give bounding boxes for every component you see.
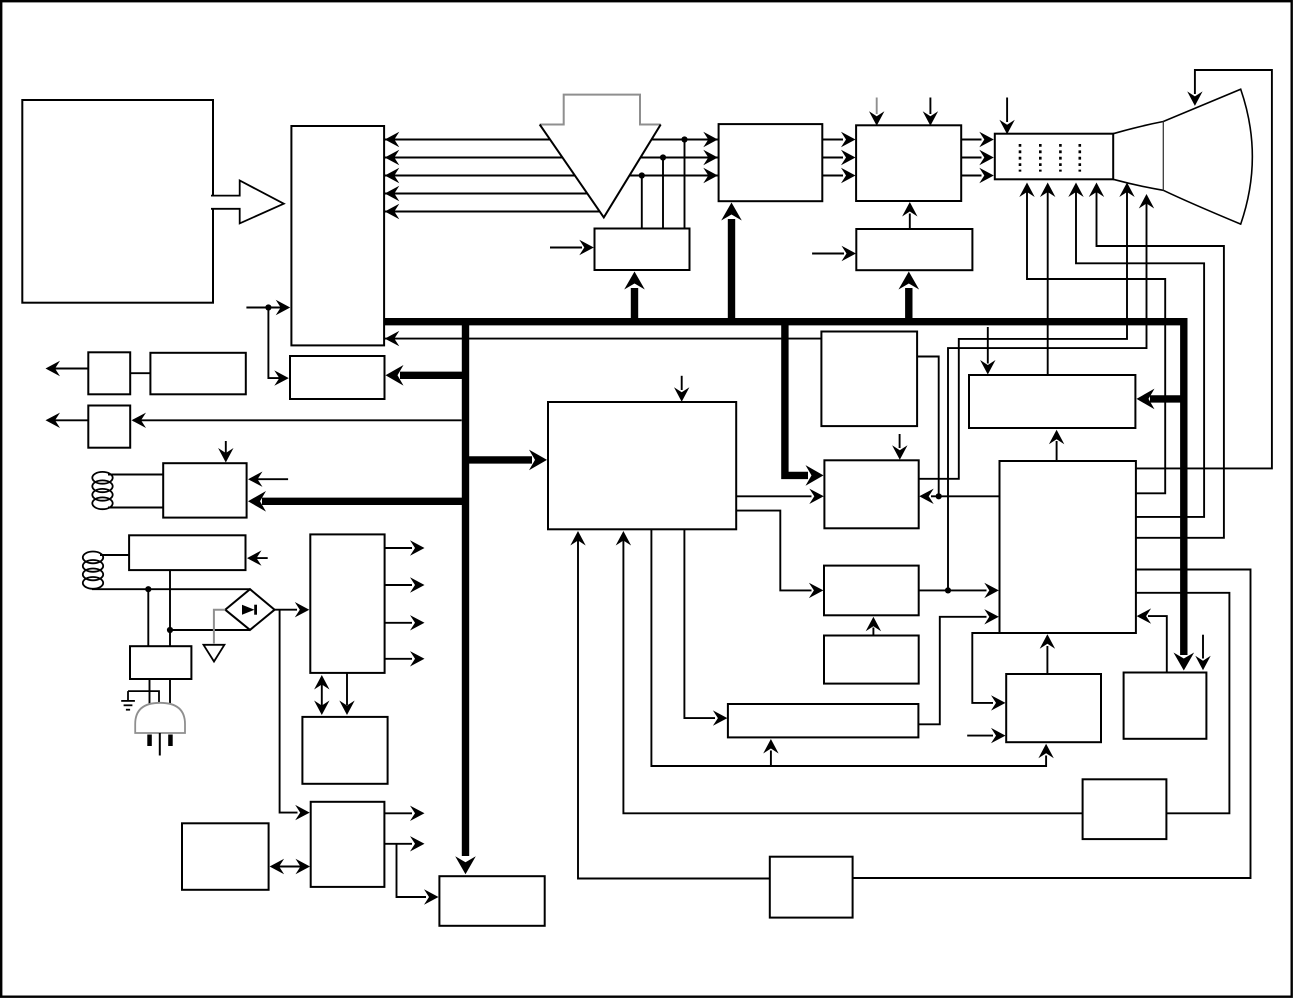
wire junction down into switch box — [147, 589, 149, 646]
wire power supply output 3 — [385, 622, 412, 624]
wire chroma2 output to jungle — [919, 589, 987, 591]
block arrow big hollow down arrow — [540, 95, 661, 218]
block box under B — [856, 229, 972, 270]
wire micom bottom 2 from delay box — [623, 534, 1082, 814]
node sync tap 3 — [639, 172, 645, 178]
wire down arrow into micom top — [681, 376, 683, 390]
CRT screen inner line — [1162, 122, 1164, 191]
bridge rectifier diamond — [225, 589, 274, 630]
block video amp A — [719, 124, 823, 201]
wire micom bottom 1 from deflection box — [578, 534, 770, 879]
wire sync tap 2 down — [662, 158, 664, 229]
node junction tuner input — [265, 304, 271, 310]
wire up arrow box18 to box B — [909, 214, 911, 230]
AC plug blades — [147, 735, 152, 747]
bus branch left into video output box — [1150, 395, 1184, 402]
wire standby branch to reset box — [397, 844, 427, 897]
power bus left vertical branch — [462, 322, 469, 856]
wire micom to chroma1 — [736, 495, 811, 497]
wire power supply output 2 — [385, 584, 412, 586]
wire jungle to delay box — [1136, 593, 1230, 814]
wire output from small box S1 to speaker — [48, 368, 88, 370]
wire free input into box4 top — [987, 327, 989, 364]
block standby supply box — [311, 802, 385, 887]
ground earth symbol — [127, 691, 129, 701]
wire free input into sync box — [550, 247, 582, 249]
wire stub with junction into tuner left edge — [246, 307, 288, 309]
wire bidirectional eeprom-standby — [272, 866, 308, 868]
block degauss box — [129, 535, 245, 570]
block eeprom box — [182, 823, 269, 890]
wire free down arrow into vertical out box — [1202, 635, 1204, 659]
bus arrow into sync box — [631, 288, 638, 318]
power bus B+ main horizontal and right vertical — [384, 322, 1184, 655]
block sync separator box — [595, 229, 690, 271]
wire box822 output to junction — [917, 357, 939, 497]
wire AFT line into tuner right edge — [385, 338, 822, 340]
wire S1 to audio amp box — [130, 372, 150, 374]
wire bridge output down to standby supply — [280, 610, 298, 813]
block tuner tall box — [291, 126, 384, 345]
block chroma stage 2 — [824, 566, 919, 616]
wire micom to chroma2 — [736, 511, 811, 591]
wire down arrow into CRT neck — [1006, 98, 1008, 123]
wire junction into chroma1 right edge — [931, 495, 939, 497]
node chroma2 output junction — [945, 587, 951, 593]
wire switch box to plug right — [169, 679, 171, 705]
wire AC line to bridge top vertex — [92, 588, 250, 590]
wire power supply output 4 — [385, 658, 412, 660]
bus arrow into video amp box A — [728, 219, 735, 318]
diode D1 inside bridge — [242, 605, 255, 615]
wire bidirectional feedback psu-regulator — [321, 678, 323, 713]
wire input into degauss box right edge — [249, 557, 268, 559]
wire sync tap 3 down — [641, 176, 643, 229]
bus arrow into box under B — [905, 288, 912, 318]
wire micom bottom 3 to control box — [651, 529, 1046, 766]
block jungle deflection IC — [1000, 461, 1136, 633]
bus branch down to chroma box — [785, 322, 808, 476]
wire free input into box18 — [812, 253, 844, 255]
bus branch left into flyback box — [262, 498, 466, 505]
wire gray down arrow into box B — [876, 98, 878, 115]
wire switch box to plug left — [149, 679, 151, 705]
block horizontal drive long box — [728, 704, 919, 737]
wire vertical out box into jungle — [1148, 616, 1167, 672]
wire chroma3 up into chroma2 — [872, 628, 874, 636]
block vertical output box — [1124, 673, 1207, 739]
wire box B to CRT neck y139.5 — [961, 139, 981, 141]
block IF box under tuner — [290, 356, 385, 399]
block chroma stage 1 — [824, 460, 918, 528]
block flyback supply box — [163, 463, 246, 517]
wire micom bottom 4 to h-drive box — [684, 529, 715, 718]
wire bridge output into power supply box — [275, 609, 297, 611]
block reset box — [439, 876, 544, 926]
wire degauss box bottom to AC lower line — [169, 570, 171, 646]
block audio amp — [150, 353, 245, 395]
wire output from small box S2 — [48, 419, 88, 421]
wire IF line 2 — [385, 157, 718, 159]
wire branch up into h-drive box — [770, 751, 772, 767]
block main power supply — [310, 534, 384, 673]
wire CRT pin1 drive — [1027, 185, 1165, 494]
inductor coil flyback secondary — [92, 472, 112, 484]
wire CRT pin3 drive — [1076, 185, 1204, 517]
wire box A to box B y157.5 — [822, 157, 843, 159]
wire coil1 bottom lead — [108, 507, 163, 509]
wire box A to box B y175.5 — [822, 175, 843, 177]
wire jungle to deflection feedback — [853, 570, 1251, 879]
block deflection box bottom center — [770, 857, 853, 918]
wire IF line 3 — [385, 175, 718, 177]
wire EHT lead from flyback to CRT anode — [1136, 70, 1272, 468]
wire IF line 5 — [385, 211, 606, 213]
block CRT neck box — [995, 134, 1113, 180]
wire input into flyback right edge — [250, 478, 288, 480]
wire box822 down into chroma1 — [899, 434, 901, 448]
wire lower AC line to bridge bottom vertex — [170, 629, 250, 631]
wire IF line 4 — [385, 193, 617, 195]
block audio output S1 — [88, 352, 130, 394]
block chroma stage 3 — [824, 636, 919, 684]
block micom system control — [548, 402, 736, 529]
inductor coil degauss — [83, 552, 103, 564]
node AC junction lower — [167, 627, 173, 633]
wire long line from bus to S2 — [133, 419, 462, 421]
node AC junction left — [145, 586, 151, 592]
bus branch left into IF block — [400, 372, 466, 379]
wire gray chassis lead from bridge — [214, 610, 225, 644]
wire jungle top up into video output box — [1056, 441, 1058, 461]
wire CRT pin6 drive — [948, 196, 1147, 590]
AC plug cord stub — [159, 733, 161, 756]
wire CRT pin5 drive — [919, 185, 1127, 479]
wire ground to plug — [128, 691, 159, 702]
AC plug body — [135, 703, 185, 733]
wire control box up into jungle — [1046, 646, 1048, 674]
wire coil1 top lead — [108, 474, 163, 476]
block relay switch box — [130, 646, 191, 679]
wire power supply output 1 — [385, 547, 412, 549]
bus branch right into micom box — [469, 456, 532, 463]
block arrow from CPU to tuner — [211, 181, 284, 224]
wire standby output 2 with branch — [384, 843, 412, 845]
wire junction to jungle left edge — [939, 495, 1000, 497]
wire IF line 1 — [385, 139, 718, 141]
wire sync tap 1 down — [684, 140, 686, 229]
wire psu to regulator down arrow — [346, 673, 348, 705]
block audio output S2 — [88, 406, 130, 448]
wire junction branch down into IF box — [268, 308, 286, 379]
wire down arrow into box B right — [929, 98, 931, 115]
node sync tap 1 — [681, 136, 687, 142]
wire down arrow into flyback box — [225, 441, 227, 461]
block CPU main large box — [22, 100, 213, 303]
wire coil2 top lead — [100, 554, 129, 556]
wire box B to CRT neck y157.5 — [961, 157, 981, 159]
wire box B to CRT neck y175.5 — [961, 175, 981, 177]
CRT electron gun dashed lines — [1019, 144, 1022, 172]
wire jungle bottom-left to control box — [972, 633, 999, 703]
block delay box — [1083, 779, 1167, 839]
wire h-drive output to jungle — [918, 617, 986, 725]
node sync tap 2 — [660, 154, 666, 160]
wire box A to box B y139.5 — [822, 139, 843, 141]
block video output box4 — [969, 375, 1135, 428]
block control box — [1006, 674, 1101, 742]
CRT funnel bell — [1113, 89, 1252, 224]
wire CRT pin4 drive — [1097, 185, 1224, 538]
wire standby output 1 — [384, 812, 412, 814]
wire free input into control box — [967, 735, 993, 737]
block box822 IF processor — [821, 332, 917, 427]
node chroma1 feed junction — [936, 493, 942, 499]
block video amp B — [856, 125, 961, 201]
earth chassis triangle symbol — [204, 645, 225, 662]
block regulator box — [302, 717, 387, 784]
wire CRT pin2 drive — [1047, 185, 1049, 376]
